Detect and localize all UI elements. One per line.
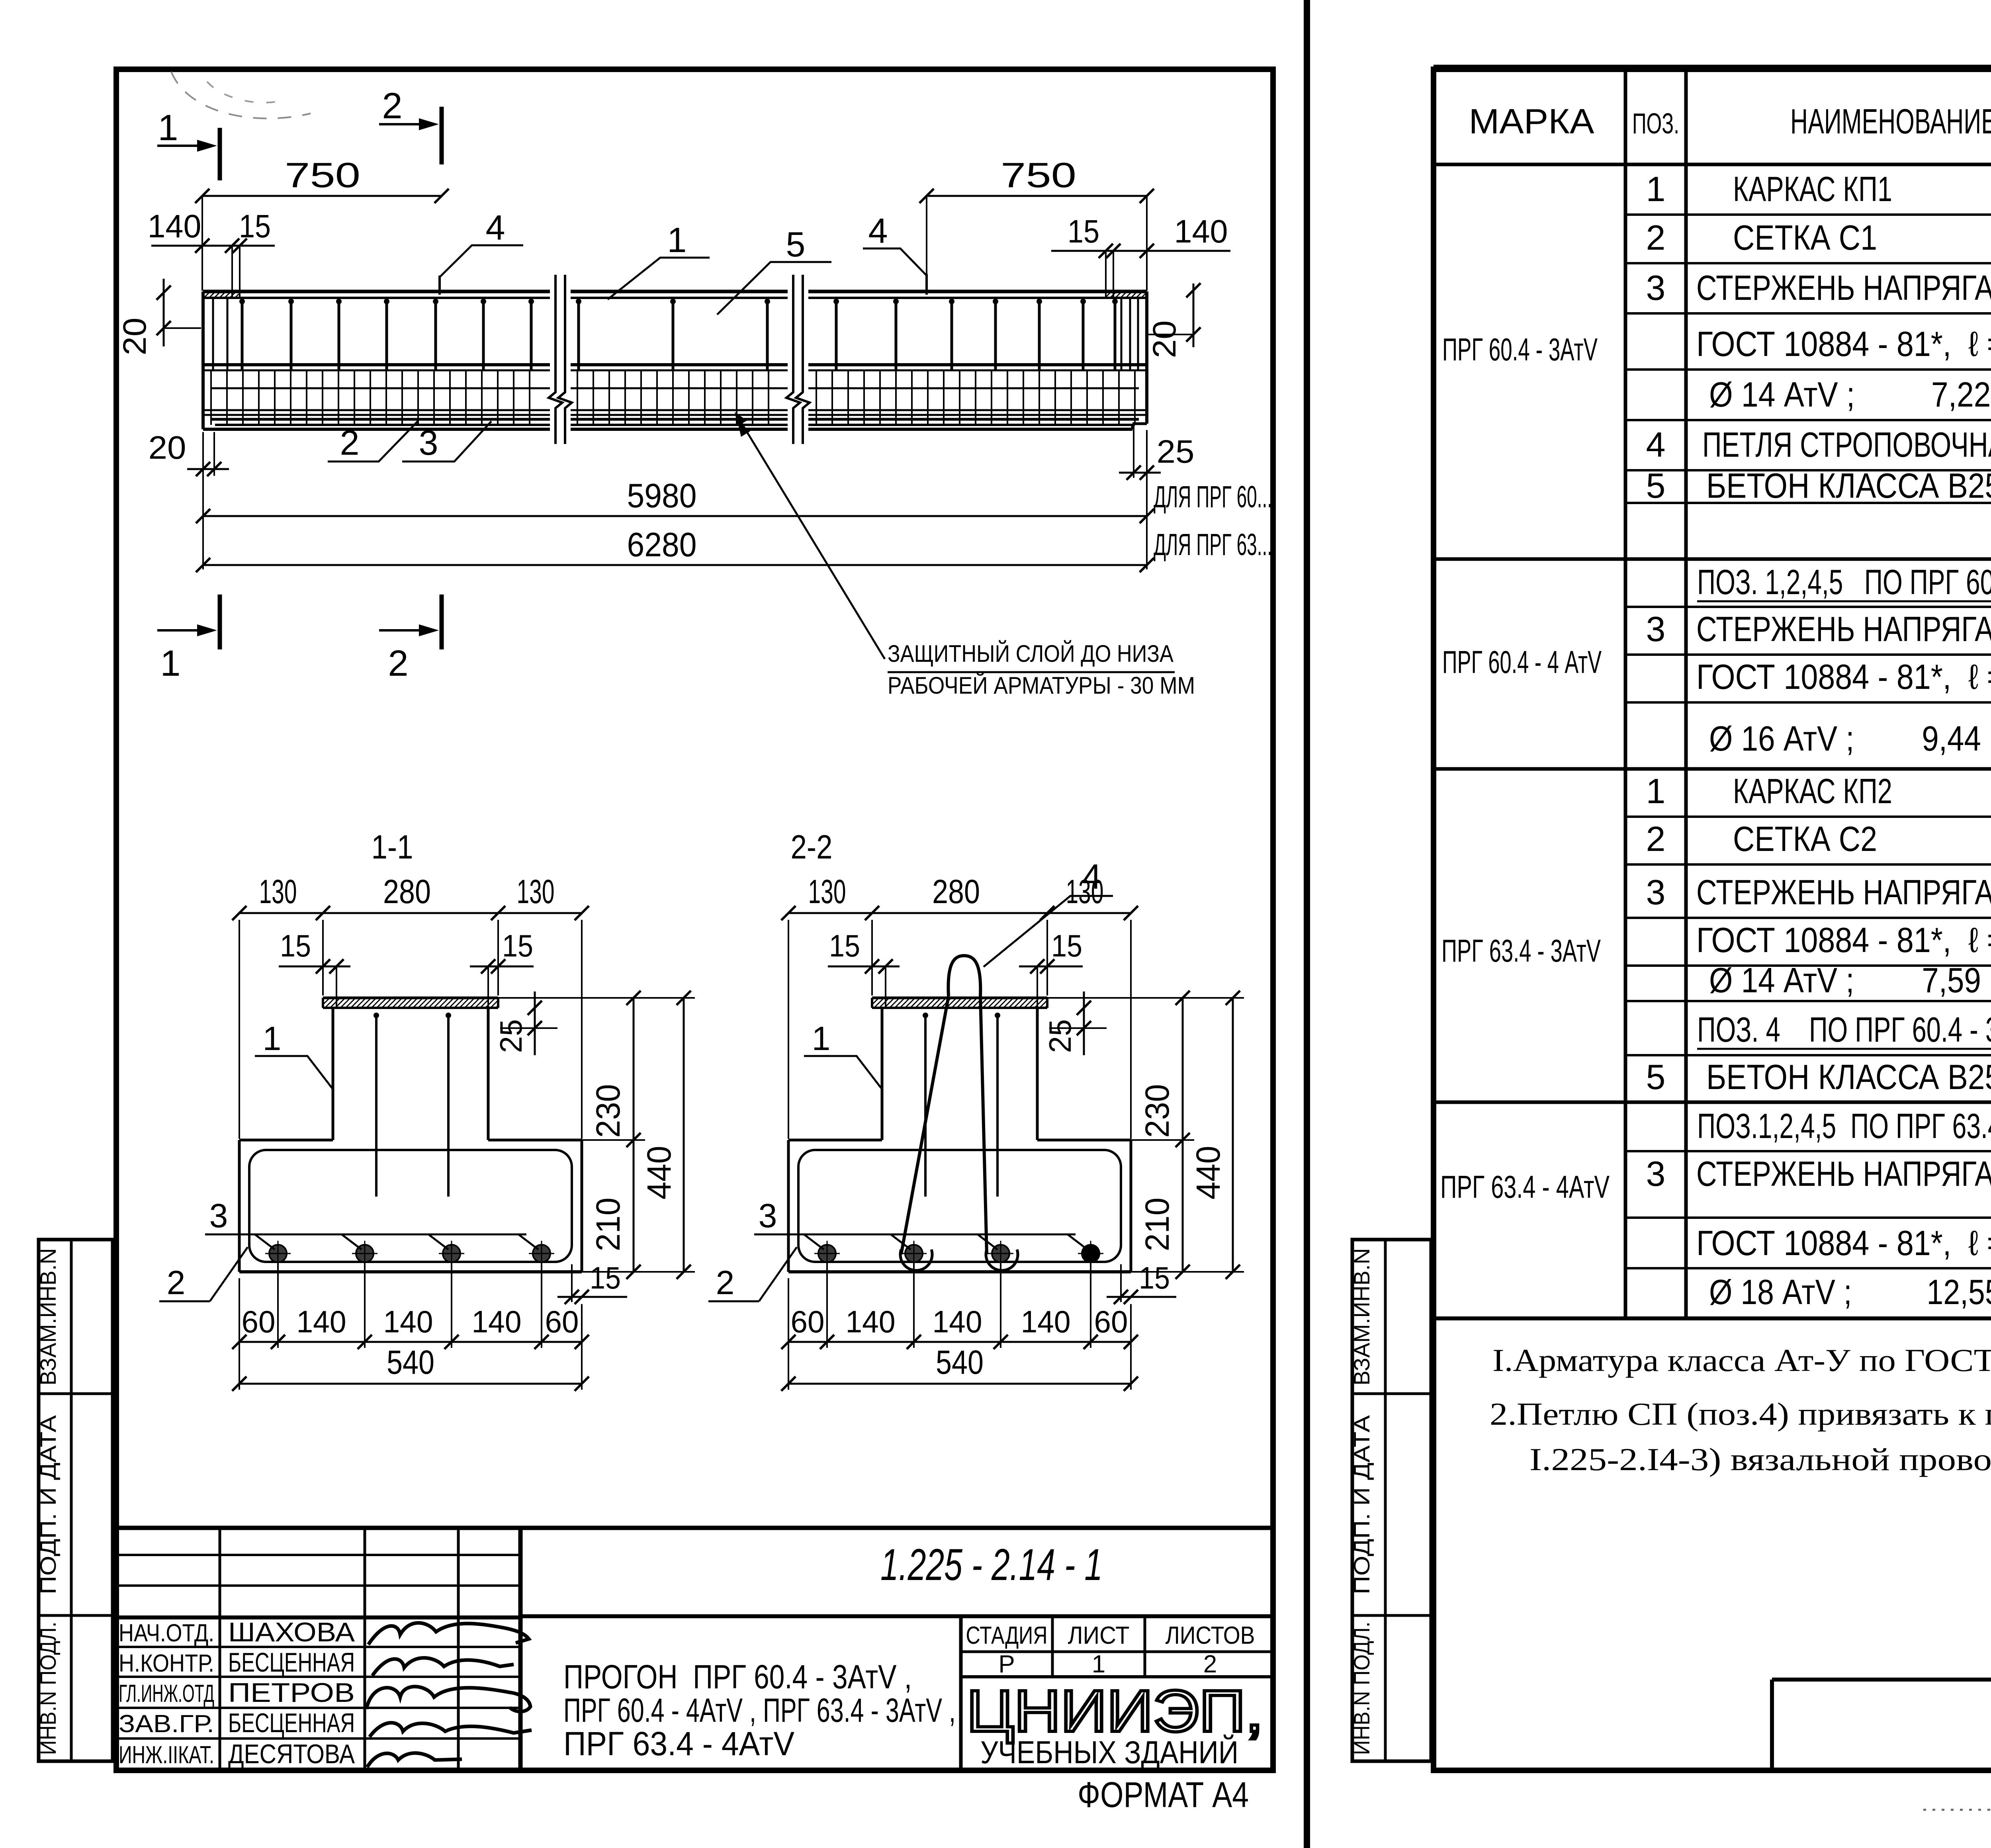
section 2-2 dimension 15 right <box>1019 966 1083 968</box>
svg-text:3: 3 <box>1646 268 1666 307</box>
dimension 20 top right vertical <box>1193 284 1195 347</box>
svg-text:4: 4 <box>1646 425 1666 464</box>
svg-text:ПРГ 60.4 - 4 АтV: ПРГ 60.4 - 4 АтV <box>1442 644 1602 680</box>
dimension 5980 <box>203 515 1147 517</box>
svg-text:ПОЗ.1,2,4,5 ПО ПРГ 63.4 - 3 А: ПОЗ.1,2,4,5 ПО ПРГ 63.4 - 3 АтV <box>1697 1106 1991 1146</box>
svg-text:3: 3 <box>209 1197 228 1234</box>
svg-text:СЕТКА С1: СЕТКА С1 <box>1733 218 1877 257</box>
left sheet margin stamp boxes <box>39 1240 113 1761</box>
section 2-2 dimension 230 and 210 <box>1182 998 1184 1272</box>
svg-text:1: 1 <box>1646 771 1666 811</box>
svg-text:2: 2 <box>1646 819 1666 858</box>
section 1-1 dimension 15 left <box>279 966 350 968</box>
signature scribbles <box>368 1623 529 1645</box>
svg-text:ПОЗ. 4 ПО ПРГ 60.4 - 3АтV: ПОЗ. 4 ПО ПРГ 60.4 - 3АтV <box>1697 1010 1991 1049</box>
svg-text:5980: 5980 <box>627 477 697 515</box>
svg-text:ПРГ 63.4 - 4АтV: ПРГ 63.4 - 4АтV <box>563 1725 794 1762</box>
svg-text:ВЗАМ.ИНВ.N: ВЗАМ.ИНВ.N <box>35 1248 61 1386</box>
right sheet frame <box>1434 69 1991 1770</box>
svg-text:Ø 14 АтV ; 7,22 КГ: Ø 14 АтV ; 7,22 КГ <box>1709 375 1991 414</box>
svg-text:2: 2 <box>1646 218 1666 257</box>
svg-text:БЕТОН КЛАССА В25, М³: БЕТОН КЛАССА В25, М³ <box>1706 466 1991 505</box>
signature table verticals <box>219 1528 221 1770</box>
svg-text:540: 540 <box>387 1343 434 1381</box>
svg-text:60: 60 <box>1094 1304 1128 1339</box>
right sheet margin stamp boxes <box>1352 1240 1431 1761</box>
section 2-2 bottom flange outline <box>788 1139 882 1142</box>
leader 3 elevation bottom <box>402 421 491 462</box>
svg-text:1: 1 <box>158 108 178 148</box>
svg-text:1: 1 <box>812 1020 831 1057</box>
section 2-2 cage rounded rectangle <box>798 1150 1121 1262</box>
svg-text:Ø 18 АтV ; 12,55 КГ: Ø 18 АтV ; 12,55 КГ <box>1709 1272 1991 1312</box>
svg-text:ИНВ.N ПОДЛ.: ИНВ.N ПОДЛ. <box>35 1622 61 1755</box>
svg-text:СТЕРЖЕНЬ НАПРЯГАЕМЫЙ: СТЕРЖЕНЬ НАПРЯГАЕМЫЙ <box>1696 268 1991 307</box>
svg-text:15: 15 <box>1051 928 1082 963</box>
leader 4 right elevation <box>925 274 928 295</box>
section 1-1 top plate with hatch <box>323 997 498 999</box>
signature table blank row lines <box>116 1554 520 1556</box>
svg-text:60: 60 <box>242 1304 276 1339</box>
svg-text:Р: Р <box>998 1650 1015 1678</box>
section 1-1 dimension 540 <box>239 1383 582 1385</box>
svg-text:1: 1 <box>160 643 180 684</box>
svg-text:3: 3 <box>1646 609 1666 649</box>
svg-text:230: 230 <box>1138 1084 1176 1138</box>
svg-text:140: 140 <box>383 1304 433 1339</box>
dimension 25 bottom right <box>1119 472 1161 474</box>
leader 4 section 2-2 <box>984 896 1113 967</box>
spec table header bottom line <box>1435 163 1991 166</box>
svg-text:ПРГ 63.4 - 3АтV: ПРГ 63.4 - 3АтV <box>1441 933 1601 968</box>
svg-text:ГЛ.ИНЖ.ОТД: ГЛ.ИНЖ.ОТД <box>119 1680 214 1707</box>
svg-text:140: 140 <box>472 1304 522 1339</box>
section 2-2 top plate with hatch <box>872 997 1047 999</box>
svg-text:ПОЗ.: ПОЗ. <box>1632 108 1679 140</box>
svg-text:3: 3 <box>1646 872 1666 912</box>
title block main vertical <box>518 1528 523 1770</box>
section 1-1 leader 1 <box>255 1056 334 1090</box>
section 1-1 leader 2 <box>159 1300 210 1302</box>
svg-text:140: 140 <box>1021 1304 1071 1339</box>
svg-text:5: 5 <box>1646 466 1666 505</box>
svg-text:130: 130 <box>808 873 846 910</box>
svg-text:2: 2 <box>388 643 408 684</box>
svg-text:ПОДП. И ДАТА: ПОДП. И ДАТА <box>35 1415 61 1594</box>
section 2-2 web walls <box>881 1008 884 1140</box>
svg-text:130: 130 <box>517 873 555 910</box>
svg-text:750: 750 <box>1001 155 1076 195</box>
svg-text:280: 280 <box>932 873 980 910</box>
svg-text:ЗАВ.ГР.: ЗАВ.ГР. <box>119 1710 214 1738</box>
beam bottom rebar lines <box>211 418 1139 421</box>
section 2-2 leader 3 <box>754 1234 1076 1236</box>
svg-text:210: 210 <box>1138 1198 1176 1252</box>
beam mesh zone horizontals <box>203 370 1147 372</box>
svg-text:ГОСТ 10884 - 81*, ℓ = 6280: ГОСТ 10884 - 81*, ℓ = 6280 <box>1696 920 1991 960</box>
section 2-2 dimension 15 left <box>828 966 900 968</box>
loop bottom hook right <box>986 1250 1018 1270</box>
loop bottom hook left <box>900 1250 932 1270</box>
section 2-2 leader 1 <box>804 1056 883 1090</box>
svg-text:СТЕРЖЕНЬ НАПРЯГАЕМЫЙ: СТЕРЖЕНЬ НАПРЯГАЕМЫЙ <box>1696 872 1991 912</box>
leader 4 left elevation <box>438 276 441 295</box>
leader 5 elevation <box>717 262 831 315</box>
svg-text:2-2: 2-2 <box>791 828 833 866</box>
svg-text:130: 130 <box>259 873 297 910</box>
svg-text:НАЧ.ОТД.: НАЧ.ОТД. <box>119 1619 214 1647</box>
section 2-2 bottom rebar circles <box>818 1245 836 1262</box>
svg-text:140: 140 <box>1174 213 1228 250</box>
svg-text:СТАДИЯ: СТАДИЯ <box>966 1622 1048 1649</box>
svg-text:3: 3 <box>419 423 438 462</box>
svg-text:Ø 14 АтV ; 7,59 КГ: Ø 14 АтV ; 7,59 КГ <box>1709 960 1991 1000</box>
svg-text:540: 540 <box>936 1343 984 1381</box>
beam elevation outline <box>203 290 1147 293</box>
svg-text:4: 4 <box>486 208 505 247</box>
title block horizontal under code <box>520 1614 1273 1618</box>
section 1-1 top dimension 130 280 130 <box>239 912 582 914</box>
svg-text:ДЕСЯТОВА: ДЕСЯТОВА <box>228 1739 355 1769</box>
svg-text:ДЛЯ ПРГ 60...: ДЛЯ ПРГ 60... <box>1154 480 1272 514</box>
svg-text:4: 4 <box>868 211 888 250</box>
svg-text:ПРГ 60.4 - 4АтV , ПРГ 63.4 - 3: ПРГ 60.4 - 4АтV , ПРГ 63.4 - 3АтV , <box>563 1692 956 1729</box>
svg-text:КАРКАС КП1: КАРКАС КП1 <box>1733 169 1892 209</box>
spec table row lines <box>1625 213 1991 216</box>
svg-text:15: 15 <box>1068 213 1099 250</box>
svg-text:БЕСЦЕННАЯ: БЕСЦЕННАЯ <box>228 1708 355 1738</box>
section 2-2 top dimension 130 280 130 <box>788 912 1131 914</box>
svg-text:ШАХОВА: ШАХОВА <box>228 1617 355 1647</box>
section 1-1 bottom flange outline <box>239 1139 333 1142</box>
dimension 140 and 15 left <box>151 245 275 247</box>
svg-text:1-1: 1-1 <box>372 828 413 866</box>
section 2-2 bottom spacing dimensions <box>788 1341 1131 1343</box>
section 2-2 dimension 25 <box>1083 991 1085 1055</box>
title block top line <box>116 1526 1273 1530</box>
section 2-2 leader 2 <box>708 1300 759 1302</box>
svg-text:60: 60 <box>791 1304 825 1339</box>
svg-text:ПРГ 60.4 - 3АтV: ПРГ 60.4 - 3АтV <box>1442 332 1598 367</box>
svg-text:ГОСТ 10884 - 81*, ℓ = 5980: ГОСТ 10884 - 81*, ℓ = 5980 <box>1696 657 1991 696</box>
spec table block separator lines <box>1435 557 1991 561</box>
svg-text:15: 15 <box>239 208 271 244</box>
svg-text:3: 3 <box>1646 1154 1666 1193</box>
svg-text:20: 20 <box>1146 321 1183 358</box>
svg-text:140: 140 <box>846 1304 896 1339</box>
svg-text:3: 3 <box>759 1197 777 1234</box>
svg-text:15: 15 <box>829 928 860 963</box>
svg-text:ФОРМАТ А4: ФОРМАТ А4 <box>1078 1775 1249 1815</box>
svg-text:5: 5 <box>1646 1057 1666 1097</box>
svg-text:15: 15 <box>590 1260 621 1295</box>
section 1-1 dimension 440 <box>683 998 685 1272</box>
dimension 750 left <box>202 195 442 197</box>
svg-text:І.225-2.І4-3) вязальной провол: І.225-2.І4-3) вязальной проволокой <box>1529 1442 1991 1477</box>
section 2-2 dimension 15 bottom <box>1107 1296 1176 1298</box>
svg-text:МАРКА: МАРКА <box>1469 102 1594 141</box>
signature table row lines <box>116 1646 520 1648</box>
section 1-1 dimension 15 right <box>470 966 534 968</box>
svg-text:ПРГ 63.4 - 4АтV: ПРГ 63.4 - 4АтV <box>1440 1169 1610 1205</box>
svg-text:25: 25 <box>1042 1019 1078 1053</box>
spec table outer and column lines <box>1435 1316 1991 1320</box>
section 2-2 inner mesh bars <box>924 1013 927 1197</box>
svg-text:60: 60 <box>545 1304 579 1339</box>
svg-text:ВЗАМ.ИНВ.N: ВЗАМ.ИНВ.N <box>1349 1248 1374 1386</box>
svg-text:ПОЗ. 1,2,4,5 ПО ПРГ 60.4 - 3: ПОЗ. 1,2,4,5 ПО ПРГ 60.4 - 3АтV <box>1697 562 1991 602</box>
svg-text:БЕТОН КЛАССА В25, М³: БЕТОН КЛАССА В25, М³ <box>1706 1057 1991 1097</box>
svg-text:ПОДП. И ДАТА: ПОДП. И ДАТА <box>1349 1415 1374 1594</box>
section 1-1 cage rounded rectangle <box>249 1150 572 1262</box>
svg-text:ИНЖ.IIКАТ.: ИНЖ.IIКАТ. <box>119 1741 214 1769</box>
section 1-1 dimension 230 and 210 <box>633 998 635 1272</box>
svg-text:НАИМЕНОВАНИЕ: НАИМЕНОВАНИЕ <box>1790 102 1991 141</box>
svg-text:СЕТКА С2: СЕТКА С2 <box>1733 819 1877 858</box>
protective layer note leader <box>741 423 885 659</box>
dimension 750 right <box>927 195 1147 197</box>
svg-text:ПЕТРОВ: ПЕТРОВ <box>228 1678 355 1708</box>
svg-text:ЛИСТОВ: ЛИСТОВ <box>1166 1622 1255 1649</box>
svg-text:2: 2 <box>340 423 360 462</box>
svg-text:2.Петлю СП (поз.4) привязать к: 2.Петлю СП (поз.4) привязать к поз.3 кар… <box>1490 1397 1991 1432</box>
svg-text:750: 750 <box>285 155 360 195</box>
svg-text:ПЕТЛЯ СТРОПОВОЧНАЯ СП1: ПЕТЛЯ СТРОПОВОЧНАЯ СП1 <box>1702 425 1991 464</box>
svg-text:2: 2 <box>167 1264 186 1301</box>
svg-text:1: 1 <box>667 220 687 260</box>
dimension 15 and 140 right <box>1051 250 1230 252</box>
svg-text:1: 1 <box>1092 1650 1105 1678</box>
beam top chord second line <box>203 297 1147 299</box>
svg-text:4: 4 <box>1082 857 1102 896</box>
left sheet frame <box>116 69 1273 1770</box>
svg-text:15: 15 <box>280 928 311 963</box>
svg-text:140: 140 <box>148 208 201 244</box>
svg-text:ГОСТ 10884 - 81*, ℓ = 6280: ГОСТ 10884 - 81*, ℓ = 6280 <box>1696 1223 1991 1263</box>
svg-text:Ø 16 АтV ; 9,44 КГ: Ø 16 АтV ; 9,44 КГ <box>1709 719 1991 758</box>
svg-text:25: 25 <box>1157 434 1195 470</box>
dimension 20 top left vertical <box>163 279 165 346</box>
leader 1 elevation <box>608 258 710 299</box>
beam internal horizontal upper zone bottom <box>203 363 1147 366</box>
section 1-1 leader 3 <box>205 1234 526 1236</box>
svg-text:БЕСЦЕННАЯ: БЕСЦЕННАЯ <box>228 1647 355 1678</box>
svg-text:ЛИСТ: ЛИСТ <box>1068 1622 1130 1649</box>
right title block box <box>1772 1678 1991 1682</box>
svg-text:2: 2 <box>716 1264 735 1301</box>
beam mesh verticals <box>210 370 212 425</box>
section 1-1 dimension 25 <box>534 991 536 1055</box>
section 1-1 inner mesh bars <box>375 1013 377 1197</box>
stadia list listov box <box>959 1616 963 1770</box>
section 1-1 bottom spacing dimensions <box>239 1341 582 1343</box>
svg-text:ДЛЯ ПРГ 63...: ДЛЯ ПРГ 63... <box>1154 528 1272 562</box>
beam break marks <box>550 275 571 444</box>
svg-text:20: 20 <box>149 430 186 466</box>
lifting loop poz 4 in section 2-2 <box>948 956 980 996</box>
svg-text:440: 440 <box>640 1146 678 1200</box>
section 1-1 dimension 15 bottom <box>557 1296 627 1298</box>
section 1-1 bottom rebar circles <box>269 1245 287 1262</box>
beam end thin bars <box>212 298 214 370</box>
svg-text:СТЕРЖЕНЬ НАПРЯГАЕМЫЙ: СТЕРЖЕНЬ НАПРЯГАЕМЫЙ <box>1696 1154 1991 1193</box>
section 1-1 web walls <box>332 1008 334 1140</box>
leader 2 elevation bottom <box>328 421 418 462</box>
dimension 6280 <box>203 564 1147 566</box>
svg-text:СТЕРЖЕНЬ НАПРЯГАЕМЫЙ: СТЕРЖЕНЬ НАПРЯГАЕМЫЙ <box>1696 609 1991 649</box>
svg-text:І.Арматура класса Ат-У по ГОСТ: І.Арматура класса Ат-У по ГОСТ І0884-8І* <box>1492 1343 1991 1378</box>
beam bearing pad hatch right <box>1105 292 1106 293</box>
svg-text:230: 230 <box>589 1084 627 1138</box>
svg-text:280: 280 <box>383 873 431 910</box>
svg-text:ЗАЩИТНЫЙ СЛОЙ ДО НИЗА: ЗАЩИТНЫЙ СЛОЙ ДО НИЗА <box>888 640 1173 667</box>
svg-text:1.225 - 2.14 - 1: 1.225 - 2.14 - 1 <box>880 1540 1103 1590</box>
svg-text:6280: 6280 <box>627 526 697 564</box>
svg-text:РАБОЧЕЙ АРМАТУРЫ - 30 ММ: РАБОЧЕЙ АРМАТУРЫ - 30 ММ <box>888 672 1195 699</box>
svg-text:210: 210 <box>589 1198 627 1252</box>
svg-text:2: 2 <box>382 86 402 126</box>
svg-text:Н.КОНТР.: Н.КОНТР. <box>119 1650 214 1677</box>
svg-text:КАРКАС КП2: КАРКАС КП2 <box>1733 771 1892 811</box>
faint pencil marks top left <box>171 72 311 118</box>
central page divider line <box>1304 0 1310 1848</box>
beam stirrup verticals <box>241 298 244 370</box>
svg-text:1: 1 <box>263 1020 282 1057</box>
section 2-2 dimension 440 <box>1232 998 1234 1272</box>
svg-text:15: 15 <box>502 928 533 963</box>
svg-text:УЧЕБНЫХ ЗДАНИЙ: УЧЕБНЫХ ЗДАНИЙ <box>980 1734 1238 1770</box>
svg-text:ИНВ.N ПОДЛ.: ИНВ.N ПОДЛ. <box>1349 1622 1374 1755</box>
section 2-2 dimension 540 <box>788 1383 1131 1385</box>
svg-text:140: 140 <box>933 1304 982 1339</box>
dimension 20 bottom left <box>187 468 229 470</box>
svg-text:140: 140 <box>297 1304 346 1339</box>
svg-text:ГОСТ 10884 - 81*, ℓ = 5980: ГОСТ 10884 - 81*, ℓ = 5980 <box>1696 324 1991 364</box>
svg-text:5: 5 <box>786 225 806 264</box>
svg-text:25: 25 <box>493 1019 528 1053</box>
svg-text:440: 440 <box>1189 1146 1227 1200</box>
svg-text:1: 1 <box>1646 169 1666 209</box>
svg-text:15: 15 <box>1139 1260 1170 1295</box>
svg-text:20: 20 <box>117 318 153 356</box>
svg-text:ПРОГОН ПРГ 60.4 - 3АтV ,: ПРОГОН ПРГ 60.4 - 3АтV , <box>563 1658 912 1695</box>
beam bearing pad hatch left <box>204 292 205 293</box>
svg-text:2: 2 <box>1203 1650 1217 1678</box>
